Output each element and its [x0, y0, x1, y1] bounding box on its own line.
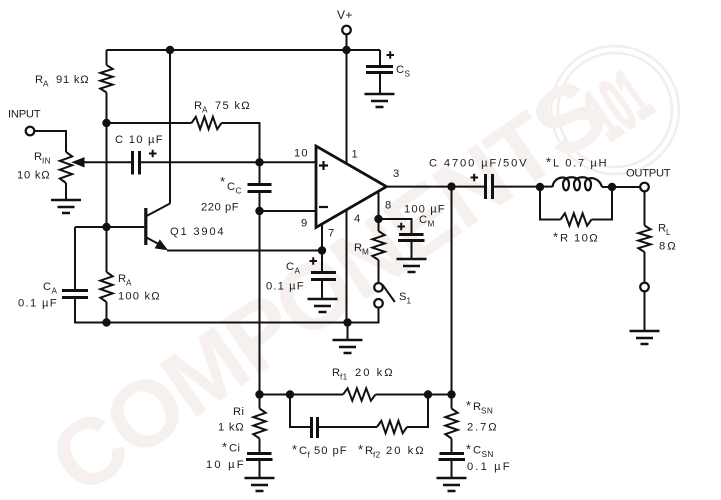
svg-text:M: M — [428, 220, 435, 229]
svg-text:7: 7 — [328, 228, 335, 240]
svg-text:OUTPUT: OUTPUT — [626, 168, 671, 180]
svg-text:9: 9 — [301, 218, 308, 230]
svg-text:V+: V+ — [337, 8, 353, 22]
svg-text:*: * — [222, 440, 227, 455]
svg-text:SN: SN — [482, 450, 494, 459]
svg-text:A: A — [52, 287, 58, 296]
svg-text:C: C — [396, 64, 404, 76]
svg-text:M: M — [362, 248, 369, 257]
svg-text:C: C — [236, 187, 242, 196]
svg-text:IN: IN — [42, 157, 51, 166]
svg-text:*: * — [466, 398, 471, 413]
svg-text:C 4700 µF/50V: C 4700 µF/50V — [429, 158, 527, 170]
svg-text:Ci: Ci — [229, 443, 240, 455]
svg-text:C: C — [473, 445, 481, 457]
svg-text:A: A — [295, 267, 301, 276]
svg-text:L: L — [666, 228, 671, 237]
svg-text:0.1 µF: 0.1 µF — [18, 298, 57, 310]
svg-text:100 µF: 100 µF — [404, 204, 445, 216]
svg-text:*: * — [292, 442, 297, 457]
svg-text:75 kΩ: 75 kΩ — [215, 100, 250, 112]
svg-text:3: 3 — [393, 168, 400, 180]
svg-text:C: C — [227, 181, 235, 193]
svg-text:10 µF: 10 µF — [206, 459, 244, 471]
svg-text:20 kΩ: 20 kΩ — [355, 367, 393, 379]
svg-text:A: A — [43, 80, 49, 89]
svg-text:*: * — [546, 155, 551, 170]
svg-text:A: A — [126, 279, 132, 288]
svg-text:20 kΩ: 20 kΩ — [386, 445, 424, 457]
svg-text:*: * — [553, 230, 558, 245]
svg-text:SN: SN — [481, 407, 493, 416]
svg-text:50 pF: 50 pF — [314, 445, 347, 457]
svg-text:10 kΩ: 10 kΩ — [17, 170, 50, 182]
svg-text:C 10 µF: C 10 µF — [115, 134, 163, 146]
svg-text:1 kΩ: 1 kΩ — [218, 422, 244, 434]
svg-text:10: 10 — [294, 148, 308, 160]
svg-text:A: A — [202, 106, 208, 115]
svg-text:R 10Ω: R 10Ω — [560, 233, 598, 245]
svg-text:f1: f1 — [340, 373, 348, 382]
svg-text:C: C — [286, 261, 294, 273]
svg-text:Ri: Ri — [233, 406, 244, 418]
svg-text:0.1 µF: 0.1 µF — [467, 461, 510, 473]
svg-text:C: C — [299, 445, 307, 457]
svg-text:f2: f2 — [373, 451, 381, 460]
svg-text:91 kΩ: 91 kΩ — [56, 74, 89, 86]
svg-text:100 kΩ: 100 kΩ — [118, 291, 160, 303]
svg-text:C: C — [43, 281, 51, 293]
svg-text:INPUT: INPUT — [8, 109, 41, 121]
svg-text:8: 8 — [385, 200, 392, 212]
svg-text:*: * — [466, 442, 471, 457]
svg-text:L 0.7 µH: L 0.7 µH — [553, 158, 607, 170]
svg-text:1: 1 — [352, 149, 359, 161]
svg-text:S: S — [405, 70, 411, 79]
svg-text:Q1 3904: Q1 3904 — [170, 226, 224, 238]
svg-text:2.7Ω: 2.7Ω — [467, 422, 497, 434]
svg-text:8Ω: 8Ω — [659, 241, 676, 253]
svg-text:*: * — [220, 174, 225, 189]
svg-text:f: f — [308, 451, 311, 460]
svg-text:0.1 µF: 0.1 µF — [266, 281, 304, 293]
svg-text:1: 1 — [407, 297, 412, 306]
svg-text:C: C — [419, 214, 427, 226]
svg-text:*: * — [358, 442, 363, 457]
svg-text:4: 4 — [354, 213, 361, 225]
svg-text:220 pF: 220 pF — [201, 202, 239, 214]
